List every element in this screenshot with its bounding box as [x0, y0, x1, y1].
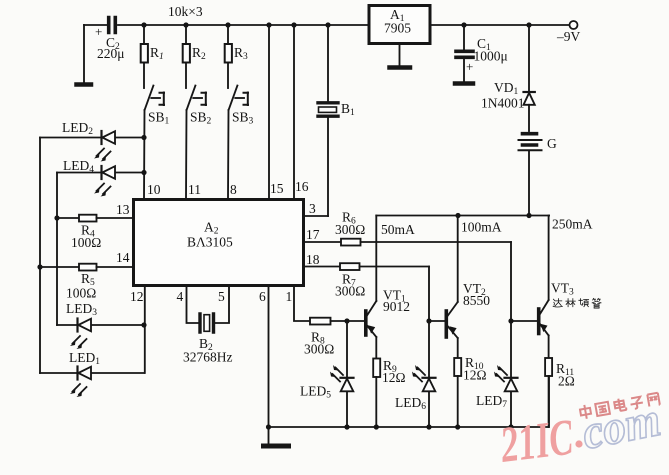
svg-text:LED5: LED5	[300, 384, 331, 401]
svg-text:4: 4	[177, 289, 184, 304]
wire pin12 column	[144, 286, 146, 373]
wire VT2 collector up	[457, 216, 459, 303]
pin number 6	[259, 289, 266, 304]
node dot R5 left	[37, 264, 42, 269]
svg-text:BΛ3105: BΛ3105	[187, 235, 233, 250]
wire pin3 stub	[304, 215, 328, 217]
wire VT3 emitter down	[548, 336, 550, 359]
pin number 13	[116, 202, 130, 217]
pushbutton SB2	[187, 86, 212, 127]
LED7	[476, 378, 518, 410]
transistor VT2 8550	[446, 281, 490, 338]
pin number 14	[116, 250, 130, 265]
svg-text:LED4: LED4	[63, 158, 94, 175]
label 10k×3	[168, 4, 203, 19]
watermark 中国电子网	[579, 393, 660, 420]
svg-text:21IC: 21IC	[497, 409, 577, 474]
resistor R5	[40, 264, 134, 301]
node dot VT2 base	[426, 318, 431, 323]
wire VT2 emitter down	[457, 338, 459, 358]
node dot LED4/SB1	[141, 170, 146, 175]
resistor R9	[373, 358, 405, 427]
svg-text:R1: R1	[150, 45, 164, 62]
pin number 11	[188, 182, 201, 197]
wire bottom rail	[269, 376, 550, 427]
wire SB2 column to pin11	[185, 110, 188, 199]
wire LED6 column	[428, 321, 430, 427]
svg-text:LED7: LED7	[476, 393, 507, 410]
svg-text:13: 13	[116, 202, 130, 217]
svg-text:14: 14	[116, 250, 130, 265]
svg-text:18: 18	[306, 252, 320, 267]
wire top rail right	[430, 24, 569, 26]
LED4	[57, 158, 144, 179]
regulator A1 7905	[369, 6, 430, 44]
wire pin18 row	[304, 266, 340, 268]
label darlington chinese	[553, 298, 601, 308]
svg-text:+: +	[95, 24, 102, 39]
svg-text:VT3: VT3	[551, 281, 574, 298]
ground (main)	[264, 424, 289, 446]
battery G	[519, 134, 558, 215]
svg-text:R2: R2	[192, 45, 206, 62]
capacitor C1	[456, 25, 508, 81]
pin number 4	[177, 289, 184, 304]
svg-text:R3: R3	[234, 45, 248, 62]
svg-text:1000μ: 1000μ	[474, 49, 508, 64]
node dot pin16 rail	[291, 22, 296, 27]
pin number 12	[130, 289, 144, 304]
svg-text:50mA: 50mA	[381, 222, 415, 237]
resistor R10	[454, 355, 486, 427]
node dot VT3 base	[508, 318, 513, 323]
LED5	[300, 321, 354, 427]
wire left vertical A	[39, 138, 41, 374]
svg-text:com: com	[578, 393, 665, 460]
wire R6 to VT3 base	[511, 242, 537, 321]
transistor VT1 9012	[366, 288, 410, 338]
ground (C2)	[77, 82, 92, 87]
node dot R1 rail	[141, 22, 146, 27]
resistor R3	[225, 25, 248, 88]
svg-text:15: 15	[270, 181, 284, 196]
pin number 17	[306, 227, 320, 242]
svg-text:SB1: SB1	[148, 110, 170, 127]
svg-text:100mA: 100mA	[461, 220, 502, 235]
pin number 18	[306, 252, 320, 267]
svg-text:300Ω: 300Ω	[335, 222, 365, 237]
LED2 emission arrows	[94, 149, 111, 162]
transistor VT3 darlington	[539, 281, 574, 336]
svg-text:220μ: 220μ	[97, 46, 125, 61]
LED7 emission arrows	[494, 365, 507, 382]
wire 50mA top line	[376, 216, 549, 238]
LED3	[57, 301, 144, 332]
wire VT1 collector up	[375, 216, 377, 302]
svg-text:10k×3: 10k×3	[168, 4, 203, 19]
node dot B1 rail	[325, 22, 330, 27]
svg-text:100Ω: 100Ω	[66, 286, 96, 301]
pin number 5	[218, 289, 225, 304]
svg-text:3: 3	[309, 201, 316, 216]
LED2	[40, 120, 144, 144]
wire LED7 column	[510, 321, 512, 427]
node dot R8/VT1 base	[344, 318, 349, 323]
LED5 emission arrows	[330, 365, 343, 382]
svg-text:12Ω: 12Ω	[382, 370, 406, 385]
pin number 15	[270, 181, 284, 196]
label 250mA	[552, 217, 593, 232]
svg-text:5: 5	[218, 289, 225, 304]
svg-text:LED6: LED6	[395, 395, 426, 412]
crystal B2	[183, 286, 233, 365]
pin number 3	[309, 201, 316, 216]
diode VD1 1N4001	[481, 25, 535, 131]
LED1	[40, 350, 144, 380]
svg-text:7905: 7905	[384, 21, 411, 36]
wire pin6 column	[268, 286, 270, 427]
pin number 8	[230, 182, 237, 197]
svg-text:B1: B1	[341, 101, 355, 118]
svg-text:12: 12	[130, 289, 144, 304]
svg-text:LED2: LED2	[62, 120, 93, 137]
watermark .com	[575, 393, 664, 460]
svg-text:100Ω: 100Ω	[71, 235, 101, 250]
node dot rail LED5	[344, 424, 349, 429]
resistor R7	[335, 263, 429, 298]
LED3 emission arrows	[70, 336, 87, 349]
node dot LED2/SB1	[141, 135, 146, 140]
svg-text:LED3: LED3	[66, 301, 97, 318]
node dot rail LED7	[508, 424, 513, 429]
svg-text:8550: 8550	[463, 293, 490, 308]
wire pin1 column to R8	[294, 286, 310, 321]
node dot C1 rail	[461, 22, 466, 27]
node dot rail R9	[374, 424, 379, 429]
pin number 16	[295, 179, 309, 194]
LED1 emission arrows	[70, 384, 87, 397]
wire R7 to VT2 base	[429, 267, 445, 322]
node dot VD1 rail	[526, 22, 531, 27]
ground (A1)	[390, 44, 411, 68]
svg-text:12Ω: 12Ω	[463, 368, 487, 383]
svg-text:16: 16	[295, 179, 309, 194]
node dot rail R10	[455, 424, 460, 429]
wire pin16 column	[293, 25, 295, 199]
resistor R8	[304, 318, 364, 357]
crystal B1	[318, 25, 355, 216]
wire left drop to ground	[83, 25, 85, 83]
LED6	[395, 378, 436, 412]
node dot G top	[526, 213, 531, 218]
resistor R1	[141, 25, 164, 88]
svg-text:32768Hz: 32768Hz	[183, 350, 233, 365]
pushbutton SB3	[229, 86, 254, 127]
svg-text:1: 1	[286, 289, 293, 304]
terminal -9V	[556, 21, 581, 44]
node dot rail LED6	[426, 424, 431, 429]
svg-text:LED1: LED1	[69, 350, 100, 367]
node dot VT2 top	[455, 213, 460, 218]
wire pin15 column	[268, 25, 270, 199]
pushbutton SB1	[145, 86, 170, 127]
node dot pin15 rail	[266, 22, 271, 27]
label 100mA	[461, 220, 502, 235]
wire SB3 column to pin8	[227, 110, 230, 199]
svg-text:9012: 9012	[383, 299, 410, 314]
svg-text:VD1: VD1	[494, 80, 519, 97]
svg-text:11: 11	[188, 182, 201, 197]
wire VT3 collector up	[548, 216, 550, 301]
IC A2 BA3105	[134, 200, 304, 286]
resistor R2	[183, 25, 206, 88]
wire top rail left	[84, 24, 369, 26]
pin number 10	[147, 182, 161, 197]
svg-text:250mA: 250mA	[552, 217, 593, 232]
resistor R4	[57, 215, 134, 250]
svg-text:SB3: SB3	[232, 110, 254, 127]
svg-text:17: 17	[306, 227, 320, 242]
wire pin17 row	[304, 241, 341, 243]
svg-text:8: 8	[230, 182, 237, 197]
node dot pin12/LED3	[141, 322, 146, 327]
watermark 21IC	[497, 409, 577, 474]
node dot R2 rail	[183, 22, 188, 27]
resistor R11	[545, 358, 575, 427]
svg-text:300Ω: 300Ω	[304, 342, 334, 357]
svg-text:–9V: –9V	[556, 29, 581, 44]
capacitor C2	[95, 18, 125, 62]
svg-text:2Ω: 2Ω	[558, 374, 575, 389]
node dot R3 rail	[225, 22, 230, 27]
node dot R4 left	[54, 215, 59, 220]
wire SB1 column to pin10	[143, 110, 146, 199]
svg-text:G: G	[547, 136, 557, 151]
LED4 emission arrows	[94, 184, 111, 197]
wire left vertical B	[56, 173, 58, 326]
pin number 1	[286, 289, 293, 304]
wire VT1 emitter down	[375, 337, 377, 359]
ground (C1)	[455, 81, 473, 86]
svg-text:1N4001: 1N4001	[481, 96, 525, 111]
resistor R6	[335, 210, 511, 246]
svg-text:10: 10	[147, 182, 161, 197]
svg-text:+: +	[466, 59, 473, 74]
LED6 emission arrows	[412, 365, 425, 382]
svg-text:6: 6	[259, 289, 266, 304]
svg-text:SB2: SB2	[190, 110, 212, 127]
svg-text:300Ω: 300Ω	[335, 284, 365, 299]
